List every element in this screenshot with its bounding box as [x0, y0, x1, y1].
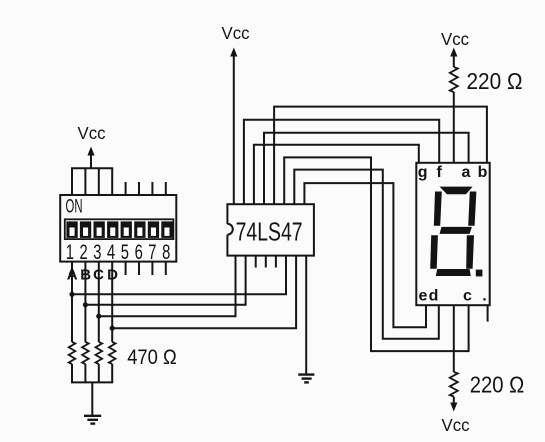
wire DS1 bottom common anode [453, 305, 455, 372]
svg-text:7: 7 [148, 241, 156, 264]
wire U1 to DS1 segment b [274, 107, 487, 205]
resistor R5 220 (top) [450, 67, 458, 92]
DS1 segment b glyph [468, 192, 476, 226]
DS1 segment e glyph [430, 235, 438, 269]
svg-text:3: 3 [93, 241, 101, 264]
wire node B vertical [84, 262, 86, 342]
svg-text:c: c [463, 288, 472, 305]
U1 bottom stub pins 3,4,5 [256, 256, 276, 268]
wire node A vertical [71, 262, 73, 342]
power Vcc (bottom right, arrow down) [442, 397, 470, 435]
svg-text:B: B [80, 267, 91, 284]
wire C to U1 pin 1 [99, 256, 236, 317]
svg-text:C: C [93, 267, 104, 284]
DS1 segment f glyph [434, 192, 442, 226]
svg-text:220 Ω: 220 Ω [470, 372, 525, 398]
DS1 segment c glyph [466, 235, 474, 269]
arrow marker on node A [69, 267, 76, 275]
7-segment display DS1 body [416, 163, 489, 305]
DS1 segment a glyph [440, 187, 473, 195]
junction A [69, 292, 74, 297]
svg-text:470 Ω: 470 Ω [127, 346, 177, 369]
wire node D vertical [111, 262, 113, 342]
svg-text:f: f [437, 164, 443, 181]
junction C [96, 314, 101, 319]
svg-text:Vcc: Vcc [442, 415, 470, 435]
junction D [110, 326, 115, 331]
svg-text:6: 6 [135, 241, 143, 264]
DS1 decimal point glyph [476, 270, 483, 277]
svg-text:Vcc: Vcc [222, 23, 250, 43]
svg-text:A: A [67, 267, 78, 284]
op IC U1 74LS47 [227, 204, 314, 255]
DIP switch S1 top stub pins 5-8 [126, 182, 166, 195]
svg-text:74LS47: 74LS47 [236, 219, 303, 247]
svg-text:4: 4 [107, 241, 115, 264]
wire node C vertical [98, 262, 100, 342]
resistor R4 470 [109, 342, 116, 364]
svg-text:5: 5 [121, 241, 129, 264]
svg-text:D: D [107, 267, 118, 284]
ground (right, U1 pin 8) [298, 375, 314, 383]
power Vcc (DIP switch) [78, 123, 106, 168]
wire A to U1 pin 6 [72, 256, 286, 295]
wire U1 pin 8 to ground [305, 256, 307, 375]
DIP switch S1 bottom stub pins 5-8 [126, 262, 166, 275]
wire U1 to DS1 segment a [264, 133, 469, 205]
svg-text:ON: ON [66, 196, 83, 218]
DS1 segment g glyph [440, 227, 472, 234]
power Vcc (top right) [441, 29, 469, 67]
wire DS1 top common anode [453, 92, 455, 163]
svg-text:Vcc: Vcc [441, 29, 469, 49]
power Vcc (U1 pin 16) [222, 23, 250, 204]
svg-text:e: e [419, 288, 428, 305]
wire B to U1 pin 2 [85, 256, 245, 305]
resistor R3 470 [96, 342, 103, 364]
wire U1 to DS1 segment d [294, 170, 439, 339]
junction B [83, 302, 88, 307]
DS1 decimal point stub pin [487, 305, 489, 321]
wire D to U1 pin 7 [112, 256, 296, 329]
resistor R2 470 [82, 342, 89, 364]
wire U1 to DS1 segment e [304, 183, 426, 327]
wire U1 to DS1 segment c [284, 157, 468, 351]
svg-text:8: 8 [162, 241, 170, 264]
svg-text:2: 2 [80, 241, 88, 264]
svg-text:a: a [462, 164, 471, 181]
ground (left) [84, 416, 101, 424]
resistor R1 470 [69, 342, 76, 364]
svg-text:g: g [418, 164, 428, 181]
wire resistors to ground bus [71, 364, 113, 416]
svg-text:Vcc: Vcc [78, 123, 106, 143]
svg-text:d: d [429, 288, 439, 305]
resistor R6 220 (bottom) [450, 372, 458, 396]
svg-text:1: 1 [66, 241, 74, 264]
DIP switch S1 body [60, 195, 176, 264]
wire U1 to DS1 segment f [244, 120, 439, 204]
svg-text:b: b [478, 164, 488, 181]
svg-text:.: . [482, 288, 486, 305]
DS1 segment d glyph [436, 269, 471, 276]
wire (Vcc bus over DIP pins 1-4) [71, 168, 113, 195]
wire U1 to DS1 segment g [254, 145, 419, 205]
svg-text:220 Ω: 220 Ω [467, 68, 523, 94]
